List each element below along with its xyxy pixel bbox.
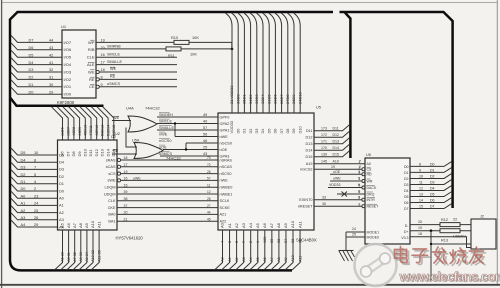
svg-text:16: 16: [124, 177, 128, 181]
svg-text:uSMCS: uSMCS: [159, 152, 173, 156]
svg-text:A8: A8: [277, 257, 281, 262]
wire bus taps D7-D0 to U1 inputs: [11, 35, 62, 94]
wire uWE stub to U6 WR: [330, 177, 362, 181]
svg-text:uSMCS: uSMCS: [107, 82, 121, 86]
svg-text:38: 38: [124, 197, 128, 201]
svg-text:GPA1: GPA1: [220, 128, 230, 132]
svg-text:D9: D9: [77, 151, 82, 157]
svg-text:A6: A6: [66, 222, 71, 228]
svg-text:D5: D5: [430, 193, 435, 197]
svg-text:DACK: DACK: [367, 186, 377, 190]
resistor R10 10K: [171, 35, 199, 44]
svg-text:97: 97: [284, 239, 288, 243]
svg-text:20: 20: [124, 211, 128, 215]
svg-text:1: 1: [256, 241, 260, 243]
wire U6 V3.3 to connector: [410, 237, 471, 248]
svg-text:2: 2: [34, 186, 36, 191]
svg-text:D2: D2: [404, 177, 409, 181]
svg-text:D1: D1: [21, 179, 26, 184]
svg-text:WE: WE: [113, 116, 120, 120]
svg-text:A7 32: A7 32: [73, 252, 77, 262]
svg-text:SMALLE: SMALLE: [159, 126, 174, 130]
svg-text:28: 28: [207, 197, 211, 201]
svg-text:nGCS0: nGCS0: [159, 139, 171, 143]
svg-text:INTR: INTR: [367, 198, 376, 202]
svg-text:uWE: uWE: [133, 177, 141, 181]
svg-text:A3: A3: [241, 222, 246, 228]
svg-text:A5: A5: [255, 222, 260, 228]
svg-text:SMCLE: SMCLE: [159, 120, 173, 124]
svg-text:1: 1: [359, 160, 361, 164]
svg-text:A1: A1: [228, 257, 232, 262]
bus: main address/data bus loop (left, top, bottom): [10, 12, 333, 270]
svg-text:D7: D7: [404, 207, 409, 211]
U6 left pin names and bubbles: [359, 160, 380, 240]
svg-text:HY57V641620: HY57V641620: [116, 236, 144, 241]
svg-text:44D9: 44D9: [78, 127, 82, 136]
svg-text:I/O0: I/O0: [64, 92, 72, 97]
svg-text:18: 18: [124, 156, 128, 160]
svg-text:GPA2: GPA2: [220, 122, 230, 126]
wire U6 D+ to R13 to USB connector: [410, 230, 471, 232]
svg-text:I/O5: I/O5: [64, 55, 72, 60]
svg-text:nSCS0: nSCS0: [220, 172, 232, 176]
svg-text:A10: A10: [291, 255, 295, 262]
svg-text:20: 20: [418, 220, 422, 224]
svg-text:29: 29: [49, 90, 53, 94]
svg-text:15: 15: [419, 205, 423, 209]
svg-text:A22: A22: [220, 220, 227, 224]
svg-text:D15: D15: [306, 155, 313, 159]
svg-text:100: 100: [263, 237, 267, 243]
svg-text:19: 19: [124, 170, 128, 174]
svg-text:D3: D3: [430, 181, 435, 185]
bus: right-hand data bus to USB controller: [340, 12, 453, 208]
svg-text:I/O2: I/O2: [64, 77, 72, 82]
svg-text:D13: D13: [306, 142, 313, 146]
wire EXINT0 from CPU to U6 INTR: [299, 195, 362, 202]
node junction on VDD33 net: [231, 48, 234, 51]
svg-text:20: 20: [101, 46, 105, 50]
svg-text:45D10: 45D10: [84, 125, 88, 136]
svg-text:A4: A4: [248, 222, 253, 228]
svg-text:D0: D0: [235, 128, 240, 134]
svg-text:D1: D1: [430, 169, 435, 173]
IC U5 S3C44B0X CPU: [218, 106, 321, 243]
svg-text:www.elecfans.com: www.elecfans.com: [399, 269, 500, 284]
svg-text:4: 4: [221, 241, 225, 243]
wire D+ net down to lower connector pin: [431, 231, 471, 281]
svg-text:8: 8: [359, 202, 361, 206]
svg-text:19: 19: [331, 165, 335, 169]
svg-text:A10: A10: [90, 220, 95, 228]
svg-text:27: 27: [207, 204, 211, 208]
U1 pin bubbles (inverted pins WE,RE,CE): [96, 70, 99, 88]
svg-text:25: 25: [352, 233, 356, 237]
svg-text:D4: D4: [29, 61, 34, 65]
svg-text:RESET: RESET: [367, 205, 380, 209]
svg-text:A3: A3: [21, 215, 26, 220]
svg-text:J2: J2: [480, 214, 484, 218]
svg-text:34D2: 34D2: [248, 94, 253, 104]
svg-text:K9F2808: K9F2808: [57, 100, 75, 105]
svg-text:I/O6: I/O6: [64, 47, 72, 52]
svg-text:D3: D3: [254, 129, 259, 134]
svg-text:WE: WE: [110, 67, 117, 71]
svg-text:11: 11: [207, 183, 211, 187]
svg-text:26: 26: [207, 170, 211, 174]
svg-text:D3: D3: [29, 68, 34, 72]
svg-text:U5A: U5A: [132, 139, 140, 143]
wire VDD33 stub to U6 DACK: [328, 183, 362, 187]
svg-text:43: 43: [203, 152, 207, 156]
svg-text:nSRAS: nSRAS: [220, 158, 233, 162]
svg-text:A9: A9: [283, 222, 288, 228]
svg-text:51D14: 51D14: [106, 125, 110, 136]
wires CPU address bus A0-A11 to bottom bus: [215, 220, 303, 270]
svg-text:D2: D2: [59, 174, 64, 179]
svg-text:10: 10: [419, 175, 423, 179]
svg-text:sCS: sCS: [108, 172, 116, 176]
bus: branch to SDRAM data pins D6-D15: [10, 98, 104, 106]
svg-text:47D11: 47D11: [89, 125, 93, 136]
svg-text:19: 19: [101, 38, 105, 42]
svg-text:A7: A7: [270, 257, 274, 262]
svg-text:57: 57: [203, 126, 207, 130]
svg-text:24: 24: [352, 227, 356, 231]
svg-text:30D6: 30D6: [273, 94, 278, 104]
svg-text:46: 46: [203, 139, 207, 143]
svg-text:12: 12: [419, 187, 423, 191]
svg-text:nWBE1: nWBE1: [220, 192, 233, 196]
svg-text:8: 8: [34, 157, 36, 162]
svg-text:17: 17: [124, 163, 128, 167]
svg-text:nSCAS: nSCAS: [220, 165, 233, 169]
decorative watermark text 电子发烧友 (vector strokes): [397, 248, 410, 264]
wire WE input to U4A: [112, 116, 131, 120]
svg-text:26D9: 26D9: [291, 94, 296, 104]
svg-text:D6: D6: [404, 201, 409, 205]
svg-text:7: 7: [34, 165, 36, 170]
svg-text:8: 8: [419, 163, 421, 167]
svg-text:27D8: 27D8: [285, 94, 290, 104]
svg-text:nRESET: nRESET: [298, 205, 313, 209]
svg-text:A8: A8: [78, 222, 83, 228]
resistor R13: [440, 229, 467, 243]
svg-text:10K: 10K: [190, 51, 197, 56]
svg-text:49: 49: [203, 113, 207, 117]
svg-text:A6: A6: [262, 222, 267, 228]
svg-text:D3: D3: [59, 167, 64, 172]
svg-text:SMOEH: SMOEH: [159, 113, 173, 117]
svg-text:D5: D5: [29, 53, 34, 57]
svg-text:D4: D4: [21, 157, 27, 162]
svg-text:GPF0: GPF0: [220, 115, 230, 119]
svg-text:R10: R10: [171, 35, 179, 40]
svg-text:RE: RE: [113, 149, 119, 153]
svg-text:A2: A2: [21, 208, 26, 213]
U6 right lower pin names: [401, 224, 409, 240]
svg-text:7: 7: [242, 241, 246, 243]
svg-text:U1: U1: [61, 24, 67, 29]
svg-text:41: 41: [49, 61, 53, 65]
svg-text:A11: A11: [297, 220, 302, 228]
op-amp U5A OR gate 74HC32: [115, 131, 181, 161]
svg-text:D2: D2: [430, 175, 435, 179]
svg-text:A7: A7: [269, 222, 274, 228]
svg-text:31: 31: [49, 76, 53, 80]
svg-text:3: 3: [228, 241, 232, 243]
wires U1 control stubs SMCLE/SMALLE/WE/RE/uSMCS: [96, 38, 177, 86]
svg-text:7: 7: [359, 196, 361, 200]
svg-text:D3: D3: [404, 183, 409, 187]
svg-text:sRAS: sRAS: [106, 158, 116, 162]
svg-text:U2: U2: [115, 131, 120, 136]
svg-text:D1: D1: [59, 181, 64, 186]
node junction gate output nWE: [174, 122, 176, 124]
wires MODE1/MODE0 to ground: [346, 227, 365, 250]
svg-text:A5: A5: [60, 222, 65, 228]
svg-text:SCKE: SCKE: [220, 206, 231, 210]
svg-text:WE: WE: [88, 69, 95, 74]
svg-text:73: 73: [207, 156, 211, 160]
svg-text:A2: A2: [234, 222, 239, 228]
svg-text:nWE: nWE: [159, 133, 168, 137]
svg-text:A11: A11: [96, 220, 101, 228]
svg-text:WR: WR: [367, 179, 373, 183]
svg-text:uOE: uOE: [333, 170, 341, 174]
svg-text:A0: A0: [21, 193, 27, 198]
svg-text:VDD33: VDD33: [329, 183, 340, 187]
wire nGCS2 from CPU to U6 CS: [300, 165, 362, 172]
svg-text:33: 33: [322, 195, 326, 199]
wires SDRAM control lines to CPU (sRAS..BA1): [104, 156, 218, 223]
svg-text:nOE: nOE: [159, 146, 167, 150]
svg-text:CLK: CLK: [108, 199, 116, 203]
svg-text:13D7: 13D7: [66, 127, 70, 136]
svg-text:D6: D6: [273, 129, 278, 134]
svg-text:A5 30: A5 30: [61, 252, 65, 262]
svg-text:nOE: nOE: [220, 148, 228, 152]
svg-text:D14: D14: [306, 149, 313, 153]
svg-text:A0: A0: [221, 257, 225, 262]
svg-text:17: 17: [101, 61, 105, 65]
svg-text:D7: D7: [65, 151, 70, 157]
svg-text:D6: D6: [430, 199, 435, 203]
svg-text:30: 30: [322, 202, 326, 206]
svg-text:A9: A9: [84, 222, 89, 228]
svg-text:139: 139: [321, 153, 327, 157]
svg-text:99: 99: [270, 239, 274, 243]
svg-text:A4: A4: [249, 257, 253, 262]
wire U1 pin20 R/B pull-up: [96, 48, 232, 50]
svg-text:RD: RD: [367, 173, 373, 177]
svg-text:30: 30: [49, 83, 53, 87]
svg-text:UDQM: UDQM: [104, 192, 116, 196]
svg-text:D8: D8: [71, 151, 76, 157]
glue net labels and CPU pin numbers: [159, 113, 232, 159]
svg-text:CS: CS: [367, 168, 373, 172]
wires SDRAM address pins A5-A11 to bottom bus: [55, 220, 102, 270]
svg-text:5: 5: [359, 184, 361, 188]
wires U6 data bus D0-D7 taps to right bus: [404, 161, 452, 211]
svg-text:45: 45: [207, 217, 211, 221]
svg-text:A4: A4: [21, 222, 27, 227]
svg-text:D10: D10: [297, 126, 302, 134]
svg-text:23: 23: [34, 193, 38, 198]
svg-text:36D0: 36D0: [235, 94, 240, 104]
svg-text:uWE: uWE: [333, 177, 341, 181]
svg-text:V3.3: V3.3: [401, 236, 408, 240]
svg-text:42: 42: [49, 53, 53, 57]
svg-text:D11: D11: [306, 129, 313, 133]
svg-text:BA1: BA1: [108, 220, 115, 224]
svg-text:nWE: nWE: [220, 179, 229, 183]
svg-text:D1: D1: [404, 171, 409, 175]
svg-text:A5: A5: [256, 257, 260, 262]
svg-text:RE: RE: [110, 75, 116, 79]
svg-text:A2: A2: [235, 257, 239, 262]
svg-text:6: 6: [359, 190, 361, 194]
svg-text:I/O3: I/O3: [64, 69, 72, 74]
svg-text:18: 18: [418, 232, 422, 236]
svg-text:R13: R13: [441, 238, 448, 242]
svg-text:U4A: U4A: [126, 106, 134, 111]
svg-text:D7: D7: [29, 39, 34, 43]
wire A19 from CPU to U6 A0: [306, 160, 365, 167]
svg-text:I/O7: I/O7: [64, 40, 72, 45]
svg-text:D0: D0: [29, 90, 34, 94]
svg-text:11D6: 11D6: [61, 127, 65, 136]
resistor R11 10K: [166, 47, 197, 58]
svg-text:D10: D10: [83, 148, 88, 156]
svg-text:12: 12: [207, 190, 211, 194]
svg-text:D12: D12: [306, 136, 313, 140]
IC U2 HY57V641620 SDRAM: [58, 135, 144, 241]
svg-text:9: 9: [101, 83, 103, 87]
svg-text:VDD33: VDD33: [229, 121, 234, 134]
wire nRESET from CPU to U6 RESET: [298, 202, 362, 209]
svg-text:D11: D11: [333, 127, 339, 131]
svg-text:SCLK: SCLK: [220, 199, 230, 203]
svg-text:sCAS: sCAS: [106, 165, 116, 169]
svg-text:nWBE0: nWBE0: [220, 186, 233, 190]
wire DRQ no-connect: [337, 190, 365, 197]
svg-text:A2: A2: [59, 210, 64, 215]
svg-text:145: 145: [321, 160, 327, 164]
svg-text:173: 173: [321, 127, 327, 131]
svg-text:A19: A19: [333, 160, 339, 164]
svg-text:8: 8: [101, 75, 103, 79]
svg-text:D12: D12: [333, 133, 340, 137]
svg-text:D5: D5: [59, 152, 64, 157]
svg-text:D3: D3: [21, 165, 26, 170]
svg-text:25: 25: [34, 208, 38, 213]
svg-text:A11: A11: [298, 256, 302, 262]
svg-text:50D13: 50D13: [101, 125, 105, 136]
connector J2 USB socket: [471, 214, 496, 249]
svg-text:nWE: nWE: [220, 135, 229, 139]
svg-text:WP: WP: [88, 40, 95, 45]
svg-text:74HC32: 74HC32: [145, 106, 160, 111]
svg-text:A9: A9: [284, 257, 288, 262]
svg-text:3: 3: [359, 170, 361, 174]
svg-text:19: 19: [418, 226, 422, 230]
svg-text:A3: A3: [242, 257, 246, 262]
svg-text:15: 15: [124, 183, 128, 187]
svg-text:sWE: sWE: [107, 179, 115, 183]
svg-text:48D12: 48D12: [95, 125, 99, 136]
svg-text:I/O1: I/O1: [64, 84, 72, 89]
svg-text:44: 44: [207, 211, 211, 215]
svg-text:RE: RE: [89, 77, 95, 82]
svg-text:5: 5: [34, 172, 36, 177]
svg-text:CE: CE: [89, 84, 95, 89]
svg-text:24D10: 24D10: [297, 91, 302, 104]
svg-text:D5: D5: [266, 129, 271, 134]
svg-text:R12: R12: [441, 218, 448, 222]
node junction nOE/nGCS0: [185, 148, 187, 150]
svg-text:28D7: 28D7: [279, 94, 284, 104]
svg-text:D5: D5: [404, 195, 409, 199]
svg-text:D13: D13: [333, 140, 340, 144]
svg-text:170: 170: [321, 146, 327, 150]
svg-text:A0: A0: [59, 196, 65, 201]
svg-text:BA0: BA0: [108, 213, 115, 217]
svg-text:A6: A6: [263, 257, 267, 262]
svg-text:SMCLE: SMCLE: [107, 52, 121, 56]
svg-text:A3: A3: [59, 217, 64, 222]
svg-text:A1: A1: [21, 201, 26, 206]
svg-text:72: 72: [207, 163, 211, 167]
svg-text:nGCS0: nGCS0: [220, 141, 232, 145]
svg-text:95: 95: [298, 239, 302, 243]
svg-text:SMALLE: SMALLE: [107, 60, 122, 64]
svg-text:D1: D1: [242, 129, 247, 134]
IC U6 USB controller: [365, 153, 410, 244]
svg-text:D5: D5: [21, 150, 26, 155]
svg-text:A8 33: A8 33: [79, 252, 83, 262]
svg-text:40: 40: [203, 120, 207, 124]
svg-text:31D5: 31D5: [266, 94, 271, 104]
svg-text:D14: D14: [333, 146, 340, 150]
svg-text:32D4: 32D4: [260, 94, 265, 104]
svg-text:98: 98: [277, 239, 281, 243]
svg-text:D8: D8: [285, 129, 290, 134]
wires glue logic nets SMOEH/SMCLE/SMALLE/nWE/nGCS0/nOE/uSMCS to CPU: [157, 117, 218, 156]
svg-text:A1: A1: [227, 222, 232, 228]
svg-text:D11: D11: [88, 149, 93, 157]
decorative watermark url text: [399, 269, 500, 285]
svg-text:171: 171: [321, 140, 327, 144]
svg-text:R/B: R/B: [88, 47, 95, 52]
svg-text:26: 26: [34, 215, 38, 220]
svg-text:D4: D4: [260, 128, 265, 134]
svg-text:LDQM: LDQM: [105, 186, 116, 190]
svg-text:4: 4: [359, 177, 361, 181]
svg-text:18: 18: [101, 68, 105, 72]
svg-text:U5: U5: [316, 106, 321, 110]
svg-text:A19: A19: [306, 162, 313, 166]
svg-text:172: 172: [321, 133, 327, 137]
svg-text:9: 9: [419, 169, 421, 173]
svg-text:I/O4: I/O4: [64, 62, 72, 67]
svg-text:D0: D0: [430, 163, 435, 167]
svg-text:16: 16: [101, 53, 105, 57]
CPU left pin names (SDRAM interface): [220, 158, 233, 223]
svg-text:D+: D+: [404, 230, 409, 234]
wire RE input to U5A: [112, 149, 137, 154]
